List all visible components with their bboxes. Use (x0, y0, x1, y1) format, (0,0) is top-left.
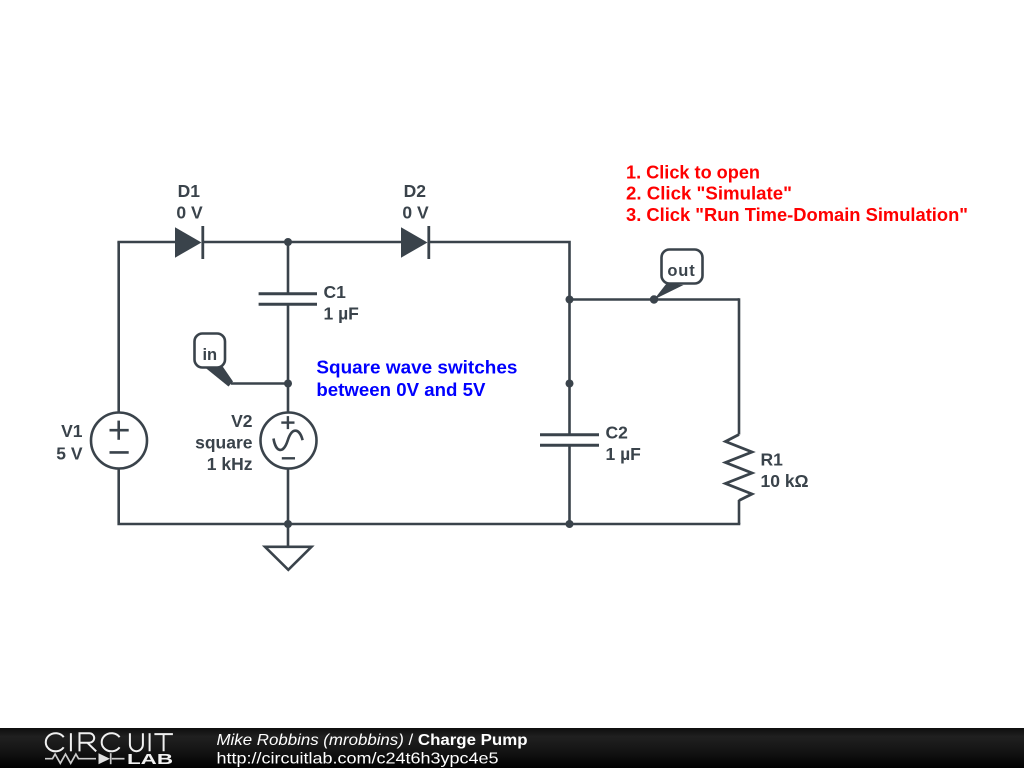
svg-text:3. Click "Run Time-Domain Simu: 3. Click "Run Time-Domain Simulation" (626, 205, 968, 225)
wire bottom rail (119, 467, 739, 525)
svg-text:Square wave switches: Square wave switches (316, 358, 517, 378)
svg-text:in: in (202, 346, 217, 364)
wire top rail right segment with corner down (430, 242, 570, 435)
wire V2 bottom lead (287, 468, 290, 524)
wire top rail middle segment (203, 241, 402, 244)
svg-text:square: square (195, 433, 253, 453)
resistor R1 (726, 435, 753, 501)
wire R1 bottom lead (738, 500, 741, 524)
wire top rail left segment (119, 242, 175, 243)
footer bar (0, 728, 1024, 768)
wire C1 bottom lead down to V2 (287, 305, 290, 414)
svg-text:out: out (667, 262, 695, 280)
svg-text:C1: C1 (324, 282, 347, 302)
diode D2 (401, 226, 429, 259)
annotation blue square wave note (316, 358, 517, 400)
node dot C2 top (566, 380, 574, 388)
node out (650, 295, 658, 303)
svg-text:2. Click "Simulate": 2. Click "Simulate" (626, 184, 792, 204)
svg-text:V1: V1 (61, 421, 83, 441)
annotation red instructions (626, 162, 968, 225)
voltage source V1 (91, 413, 147, 469)
svg-text:1 µF: 1 µF (324, 303, 360, 323)
wire right branch down to R1 (738, 298, 741, 434)
wire ground stem (287, 524, 290, 547)
voltage source V2 square (261, 413, 317, 469)
svg-text:10 kΩ: 10 kΩ (761, 471, 809, 491)
node in (284, 380, 292, 388)
node dot C2 bottom rail (566, 520, 574, 528)
footer logo CIRCUIT (46, 733, 173, 751)
svg-text:LAB: LAB (127, 752, 173, 768)
footer logo resistor-diode squiggle (45, 753, 125, 764)
svg-text:1. Click to open: 1. Click to open (626, 162, 760, 182)
svg-text:V2: V2 (231, 411, 253, 431)
wire out branch horizontal (570, 298, 740, 301)
wire in flag horizontal (231, 382, 288, 385)
node dot V2 bottom rail (284, 520, 292, 528)
svg-text:between 0V and 5V: between 0V and 5V (316, 380, 485, 400)
svg-text:C2: C2 (606, 422, 629, 442)
svg-text:1 kHz: 1 kHz (207, 454, 253, 474)
svg-text:0 V: 0 V (402, 203, 429, 223)
flag in (195, 334, 234, 387)
capacitor C1 (259, 294, 317, 305)
wire C1 top lead (287, 242, 290, 294)
node dot junction out branch left (566, 296, 574, 304)
svg-text:D2: D2 (404, 181, 427, 201)
diode D1 (175, 226, 203, 259)
ground (265, 547, 312, 570)
capacitor C2 (540, 435, 599, 446)
svg-text:D1: D1 (178, 181, 201, 201)
svg-text:Mike Robbins (mrobbins) / Char: Mike Robbins (mrobbins) / Charge Pump (217, 732, 528, 749)
svg-text:1 µF: 1 µF (606, 444, 642, 464)
svg-text:http://circuitlab.com/c24t6h3y: http://circuitlab.com/c24t6h3ypc4e5 (217, 751, 499, 768)
wire C2 bottom lead (568, 446, 571, 525)
svg-text:R1: R1 (761, 449, 784, 469)
node dot junction D1-C1 (284, 238, 292, 246)
flag out (654, 250, 703, 300)
wire left vertical to V1 (117, 242, 120, 413)
svg-text:0 V: 0 V (176, 203, 203, 223)
svg-text:5 V: 5 V (56, 444, 83, 464)
